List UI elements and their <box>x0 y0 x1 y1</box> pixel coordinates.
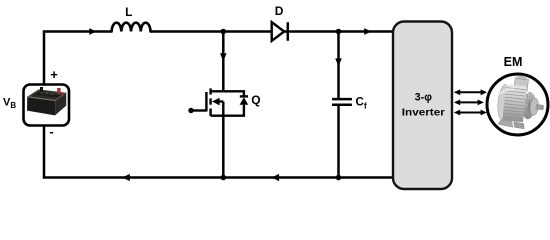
body diode triangle <box>240 97 249 104</box>
inductor L <box>112 23 151 32</box>
body-to-source vertical <box>222 102 224 116</box>
battery VB box <box>24 85 70 126</box>
wire: capacitor to bottom wire <box>337 106 340 178</box>
gate terminal dot <box>188 108 193 113</box>
svg-text:Q: Q <box>251 93 260 107</box>
svg-text:+: + <box>50 67 58 82</box>
transistor Q (N-MOSFET) <box>188 88 248 116</box>
current arrow right before inverter <box>364 28 371 35</box>
wire: inductor to diode anode <box>151 30 272 33</box>
body arrow <box>212 98 220 106</box>
svg-text:EM: EM <box>504 55 523 69</box>
wire: source down to bottom wire <box>222 116 225 178</box>
svg-text:-: - <box>49 124 53 139</box>
current arrow left mid bottom <box>272 174 280 181</box>
node: capacitor junction bottom wire <box>336 175 342 181</box>
channel segments <box>209 88 211 94</box>
node: drain junction on top wire <box>221 29 227 35</box>
motor EM circle <box>487 74 548 135</box>
svg-text:L: L <box>125 5 132 19</box>
gate lead <box>191 109 206 111</box>
node: capacitor junction on top wire <box>336 29 342 35</box>
wire: diode cathode to inverter <box>284 30 393 33</box>
wire top: battery positive up and right to inductor <box>44 32 112 86</box>
three phase double arrows <box>454 89 487 115</box>
diode D <box>272 22 285 41</box>
wire bottom: inverter to battery negative <box>44 125 393 178</box>
battery image <box>27 87 66 115</box>
svg-text:3-φ: 3-φ <box>415 92 433 104</box>
capacitor Cf <box>332 98 352 101</box>
current arrow down into MOSFET <box>220 53 227 61</box>
wire: drain branch down to MOSFET <box>222 32 225 92</box>
svg-text:Inverter: Inverter <box>402 106 445 118</box>
gate plate <box>205 92 207 111</box>
current arrow right on top wire <box>89 28 96 35</box>
current arrow left near battery <box>122 174 130 181</box>
svg-text:D: D <box>275 4 284 18</box>
node: source junction bottom wire <box>221 175 227 181</box>
current arrow down on capacitor branch <box>335 58 342 66</box>
body diode bar <box>240 95 248 97</box>
phase arrow 2 <box>459 101 479 103</box>
wire: capacitor branch down <box>337 32 340 99</box>
phase arrow 3 <box>459 112 483 114</box>
drain bar <box>211 90 224 92</box>
phase arrow 1 <box>459 91 483 93</box>
body diode loop wires <box>223 91 244 96</box>
motor image <box>496 74 547 131</box>
source bar <box>211 114 224 116</box>
inverter block <box>393 22 452 190</box>
